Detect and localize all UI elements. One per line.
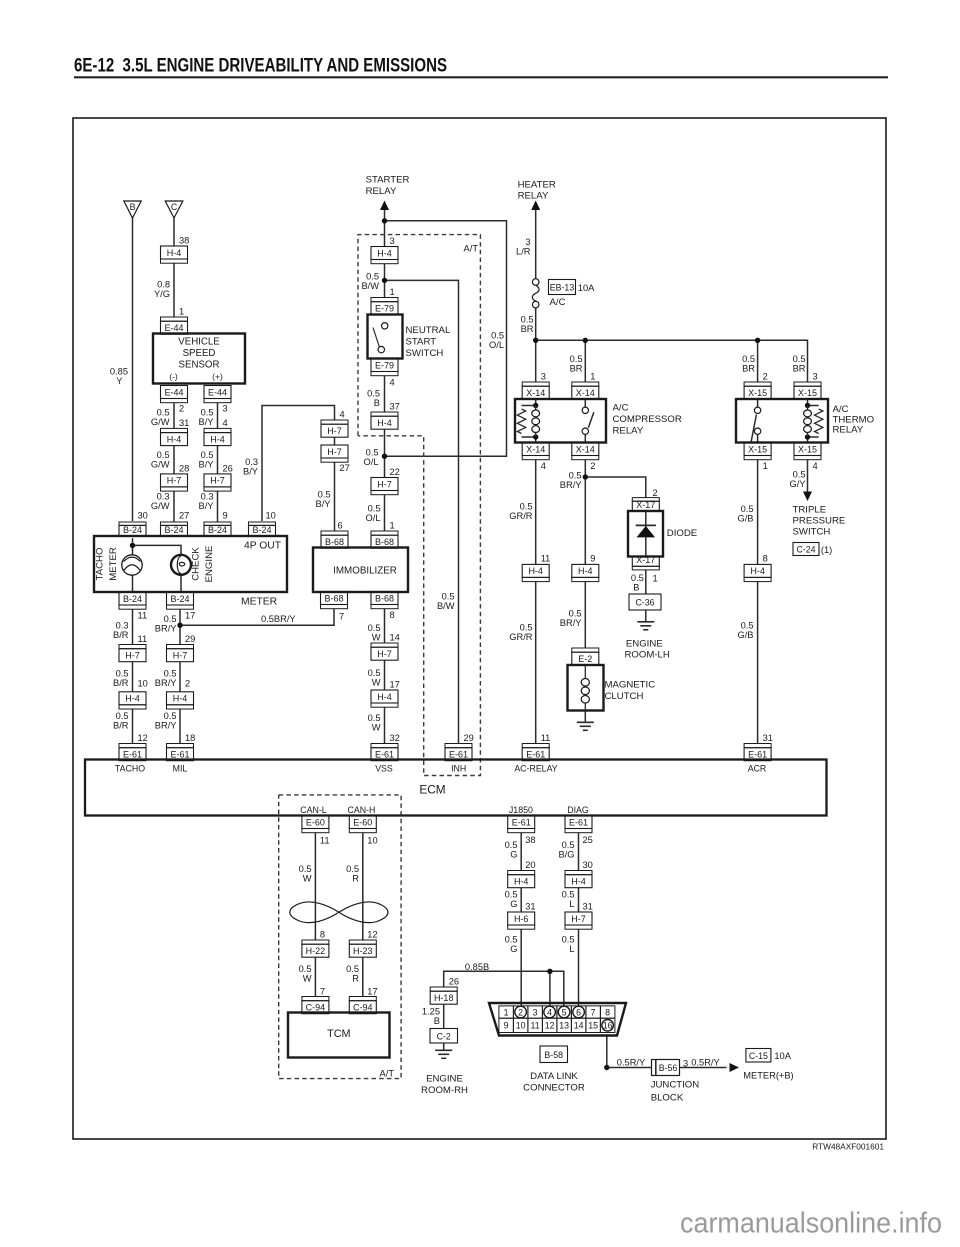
svg-text:0.5: 0.5	[368, 668, 381, 678]
svg-text:27: 27	[340, 463, 350, 473]
svg-text:3: 3	[223, 404, 228, 414]
svg-text:AC-RELAY: AC-RELAY	[514, 764, 557, 774]
svg-text:8: 8	[763, 554, 768, 564]
svg-text:ROOM-LH: ROOM-LH	[625, 650, 670, 661]
svg-text:H-18: H-18	[434, 993, 454, 1003]
svg-text:0.5: 0.5	[164, 614, 177, 624]
svg-text:DIODE: DIODE	[667, 528, 697, 539]
svg-text:B/G: B/G	[558, 850, 574, 860]
svg-text:0.5: 0.5	[569, 471, 582, 481]
svg-text:0.5: 0.5	[157, 408, 170, 418]
svg-text:0.5: 0.5	[346, 964, 359, 974]
svg-text:31: 31	[525, 902, 535, 912]
svg-text:0.5: 0.5	[367, 389, 380, 399]
svg-text:B/R: B/R	[113, 678, 129, 688]
svg-text:38: 38	[525, 835, 535, 845]
svg-text:X-17: X-17	[636, 500, 655, 510]
svg-text:METER(+B): METER(+B)	[743, 1071, 793, 1081]
svg-text:(+): (+)	[212, 372, 223, 382]
svg-text:17: 17	[185, 611, 195, 621]
svg-text:L/R: L/R	[516, 247, 531, 257]
svg-text:Y/G: Y/G	[154, 289, 170, 299]
svg-text:EB-13: EB-13	[550, 282, 575, 292]
svg-text:TCM: TCM	[327, 1028, 350, 1040]
svg-text:INH: INH	[451, 764, 466, 774]
svg-text:G/B: G/B	[737, 630, 753, 640]
svg-text:0.5: 0.5	[366, 272, 379, 282]
svg-text:VEHICLE: VEHICLE	[178, 337, 220, 348]
svg-text:GR/R: GR/R	[509, 511, 533, 521]
svg-text:ECM: ECM	[419, 783, 445, 797]
svg-text:PRESSURE: PRESSURE	[793, 516, 846, 527]
svg-text:B-56: B-56	[659, 1063, 678, 1073]
svg-text:1: 1	[590, 372, 595, 382]
svg-text:3: 3	[541, 372, 546, 382]
svg-text:0.5: 0.5	[520, 502, 533, 512]
svg-text:1: 1	[504, 1007, 509, 1017]
svg-text:H-4: H-4	[571, 877, 586, 887]
svg-text:G/W: G/W	[151, 460, 170, 470]
svg-text:1: 1	[763, 461, 768, 471]
svg-text:2: 2	[763, 372, 768, 382]
svg-text:BR/Y: BR/Y	[155, 678, 177, 688]
svg-text:E-61: E-61	[512, 817, 531, 827]
svg-text:RELAY: RELAY	[613, 426, 644, 437]
svg-text:E-61: E-61	[569, 817, 588, 827]
svg-text:B-68: B-68	[325, 537, 344, 547]
svg-text:10A: 10A	[578, 283, 595, 293]
svg-text:29: 29	[464, 733, 474, 743]
svg-text:14: 14	[390, 633, 400, 643]
svg-text:31: 31	[179, 418, 189, 428]
svg-text:0.5: 0.5	[346, 864, 359, 874]
svg-text:0.5: 0.5	[368, 713, 381, 723]
svg-text:(1): (1)	[821, 545, 832, 555]
svg-text:0.5: 0.5	[318, 490, 331, 500]
svg-text:26: 26	[223, 463, 233, 473]
svg-text:STARTER: STARTER	[366, 175, 410, 186]
svg-text:0.5: 0.5	[562, 890, 575, 900]
svg-text:X-17: X-17	[636, 555, 655, 565]
svg-text:37: 37	[390, 402, 400, 412]
svg-text:H-7: H-7	[167, 476, 182, 486]
svg-text:14: 14	[574, 1021, 584, 1031]
svg-text:0.5: 0.5	[521, 314, 534, 324]
svg-text:4: 4	[813, 461, 818, 471]
svg-text:H-4: H-4	[167, 248, 182, 258]
svg-text:C-94: C-94	[353, 1003, 373, 1013]
svg-text:H-4: H-4	[377, 418, 392, 428]
svg-text:IMMOBILIZER: IMMOBILIZER	[333, 566, 397, 577]
svg-text:3: 3	[683, 1059, 688, 1069]
svg-text:B/Y: B/Y	[316, 499, 331, 509]
svg-text:29: 29	[185, 634, 195, 644]
svg-text:0.8: 0.8	[157, 280, 170, 290]
svg-text:H-4: H-4	[173, 694, 188, 704]
svg-text:B/Y: B/Y	[199, 501, 214, 511]
svg-text:METER: METER	[108, 547, 119, 581]
svg-text:CHECK: CHECK	[191, 547, 202, 581]
svg-text:RELAY: RELAY	[833, 425, 864, 436]
svg-text:E-61: E-61	[526, 750, 545, 760]
svg-text:9: 9	[590, 554, 595, 564]
svg-text:B-58: B-58	[544, 1050, 563, 1060]
svg-text:9: 9	[504, 1021, 509, 1031]
svg-text:O/L: O/L	[366, 513, 381, 523]
svg-text:0.5: 0.5	[116, 711, 129, 721]
svg-text:6: 6	[338, 521, 343, 531]
svg-text:28: 28	[179, 463, 189, 473]
svg-text:H-4: H-4	[750, 566, 765, 576]
svg-text:G/Y: G/Y	[789, 479, 805, 489]
svg-text:W: W	[372, 723, 381, 733]
svg-text:0.5: 0.5	[520, 623, 533, 633]
svg-text:6: 6	[576, 1007, 581, 1017]
svg-text:B-24: B-24	[123, 525, 142, 535]
svg-text:E-79: E-79	[375, 360, 394, 370]
svg-text:TACHO: TACHO	[115, 764, 145, 774]
svg-text:G/W: G/W	[151, 501, 170, 511]
svg-text:4: 4	[340, 410, 345, 420]
svg-text:B: B	[633, 583, 639, 593]
svg-text:W: W	[303, 874, 312, 884]
svg-text:0.5: 0.5	[201, 450, 214, 460]
svg-text:G: G	[510, 850, 517, 860]
svg-text:2: 2	[590, 461, 595, 471]
svg-text:VSS: VSS	[375, 764, 393, 774]
svg-text:10: 10	[266, 511, 276, 521]
svg-text:26: 26	[449, 977, 459, 987]
svg-text:0.5: 0.5	[368, 504, 381, 514]
svg-text:10: 10	[516, 1021, 526, 1031]
svg-text:H-22: H-22	[306, 946, 326, 956]
svg-text:A/C: A/C	[550, 297, 566, 308]
svg-text:G/B: G/B	[737, 514, 753, 524]
svg-text:3: 3	[390, 236, 395, 246]
svg-text:7: 7	[591, 1007, 596, 1017]
svg-text:0.5: 0.5	[164, 711, 177, 721]
svg-text:(-): (-)	[169, 372, 178, 382]
svg-text:L: L	[569, 944, 574, 954]
svg-text:E-61: E-61	[449, 750, 468, 760]
svg-text:0.5: 0.5	[201, 408, 214, 418]
svg-text:H-7: H-7	[173, 651, 188, 661]
svg-text:0.5: 0.5	[299, 964, 312, 974]
svg-text:J1850: J1850	[509, 805, 533, 815]
svg-text:4: 4	[547, 1007, 552, 1017]
svg-text:BR/Y: BR/Y	[155, 624, 177, 634]
svg-text:0.85: 0.85	[110, 367, 128, 377]
svg-text:27: 27	[179, 511, 189, 521]
svg-text:B/R: B/R	[113, 721, 129, 731]
svg-text:1: 1	[653, 574, 658, 584]
svg-text:W: W	[372, 633, 381, 643]
svg-text:MAGNETIC: MAGNETIC	[605, 680, 656, 691]
svg-text:0.5: 0.5	[793, 470, 806, 480]
svg-text:ENGINE: ENGINE	[204, 546, 215, 583]
svg-text:CLUTCH: CLUTCH	[605, 691, 644, 702]
svg-text:0.5BR/Y: 0.5BR/Y	[261, 614, 296, 624]
svg-text:H-23: H-23	[353, 946, 373, 956]
svg-text:A/T: A/T	[464, 244, 479, 254]
svg-text:SWITCH: SWITCH	[406, 348, 444, 359]
svg-text:L: L	[569, 899, 574, 909]
svg-text:31: 31	[583, 902, 593, 912]
svg-text:E-79: E-79	[375, 304, 394, 314]
svg-text:15: 15	[588, 1021, 598, 1031]
svg-text:0.5R/Y: 0.5R/Y	[617, 1058, 645, 1068]
svg-text:E-44: E-44	[208, 387, 227, 397]
svg-text:E-61: E-61	[375, 750, 394, 760]
svg-text:ACR: ACR	[748, 764, 767, 774]
svg-text:4: 4	[223, 418, 228, 428]
svg-text:O/L: O/L	[489, 340, 504, 350]
svg-text:0.3: 0.3	[245, 457, 258, 467]
svg-text:H-4: H-4	[210, 434, 225, 444]
svg-text:MIL: MIL	[173, 764, 188, 774]
svg-text:CAN-H: CAN-H	[347, 805, 375, 815]
svg-text:0.5: 0.5	[164, 669, 177, 679]
svg-text:7: 7	[339, 612, 344, 622]
svg-text:12: 12	[367, 930, 377, 940]
svg-text:RELAY: RELAY	[518, 190, 549, 201]
svg-text:METER: METER	[241, 597, 277, 608]
svg-text:8: 8	[605, 1007, 610, 1017]
svg-text:O/L: O/L	[364, 457, 379, 467]
svg-text:H-7: H-7	[377, 649, 392, 659]
svg-text:BR/Y: BR/Y	[560, 480, 582, 490]
svg-text:TRIPLE: TRIPLE	[793, 505, 827, 516]
svg-text:START: START	[406, 337, 437, 348]
svg-text:HEATER: HEATER	[518, 179, 556, 190]
svg-text:B-68: B-68	[375, 537, 394, 547]
svg-text:TACHO: TACHO	[94, 548, 105, 581]
svg-text:B-24: B-24	[208, 525, 227, 535]
svg-text:B-24: B-24	[170, 594, 189, 604]
svg-text:10A: 10A	[774, 1051, 791, 1061]
svg-text:0.5: 0.5	[570, 354, 583, 364]
svg-text:GR/R: GR/R	[509, 632, 533, 642]
svg-text:X-15: X-15	[748, 388, 767, 398]
svg-text:BR: BR	[521, 324, 534, 334]
svg-text:0.3: 0.3	[116, 621, 129, 631]
svg-text:R: R	[352, 974, 359, 984]
svg-text:E-60: E-60	[306, 817, 325, 827]
svg-text:G: G	[510, 944, 517, 954]
svg-text:0.5: 0.5	[562, 840, 575, 850]
svg-text:H-4: H-4	[377, 692, 392, 702]
svg-text:0.5: 0.5	[368, 623, 381, 633]
svg-text:11: 11	[138, 611, 148, 621]
svg-text:20: 20	[525, 860, 535, 870]
svg-text:22: 22	[390, 467, 400, 477]
svg-text:11: 11	[138, 634, 148, 644]
svg-text:C-24: C-24	[796, 545, 815, 555]
svg-text:carmanualsonline.info: carmanualsonline.info	[680, 1208, 942, 1240]
svg-text:A/C: A/C	[613, 403, 629, 414]
svg-text:BR: BR	[570, 364, 583, 374]
svg-text:SWITCH: SWITCH	[793, 527, 831, 538]
svg-text:BR/Y: BR/Y	[155, 721, 177, 731]
svg-text:1.25: 1.25	[422, 1007, 440, 1017]
svg-text:B-24: B-24	[252, 525, 271, 535]
svg-text:0.3: 0.3	[157, 492, 170, 502]
svg-text:B-24: B-24	[123, 594, 142, 604]
svg-text:0.3: 0.3	[201, 492, 214, 502]
svg-text:8: 8	[390, 610, 395, 620]
svg-text:X-15: X-15	[798, 388, 817, 398]
svg-text:4: 4	[390, 378, 395, 388]
svg-text:COMPRESSOR: COMPRESSOR	[613, 414, 682, 425]
svg-text:2: 2	[185, 678, 190, 688]
svg-text:A/T: A/T	[380, 1069, 395, 1079]
svg-text:2: 2	[179, 404, 184, 414]
svg-text:4: 4	[541, 461, 546, 471]
svg-text:1: 1	[390, 287, 395, 297]
svg-text:G/W: G/W	[151, 417, 170, 427]
svg-text:H-4: H-4	[377, 248, 392, 258]
svg-text:38: 38	[179, 236, 189, 246]
svg-text:E-61: E-61	[170, 750, 189, 760]
svg-text:0.5: 0.5	[793, 354, 806, 364]
svg-text:BR: BR	[742, 364, 755, 374]
svg-text:17: 17	[367, 987, 377, 997]
svg-text:H-4: H-4	[578, 566, 593, 576]
svg-text:30: 30	[138, 511, 148, 521]
svg-text:X-14: X-14	[576, 388, 595, 398]
svg-text:H-7: H-7	[327, 426, 342, 436]
svg-text:E-44: E-44	[164, 387, 183, 397]
svg-text:X-14: X-14	[526, 444, 545, 454]
svg-text:32: 32	[390, 733, 400, 743]
svg-text:H-7: H-7	[327, 447, 342, 457]
svg-text:B: B	[130, 202, 136, 212]
svg-text:0.5: 0.5	[631, 573, 644, 583]
svg-text:B/W: B/W	[437, 601, 455, 611]
svg-text:1: 1	[179, 307, 184, 317]
svg-text:11: 11	[320, 836, 330, 846]
svg-text:G: G	[510, 899, 517, 909]
svg-text:E-44: E-44	[164, 323, 183, 333]
svg-text:0.5: 0.5	[366, 447, 379, 457]
svg-text:B/Y: B/Y	[199, 460, 214, 470]
svg-text:2: 2	[518, 1007, 523, 1017]
svg-text:2: 2	[653, 488, 658, 498]
svg-text:B/Y: B/Y	[243, 467, 258, 477]
svg-text:0.5: 0.5	[116, 669, 129, 679]
svg-text:12: 12	[545, 1021, 555, 1031]
svg-text:C-15: C-15	[749, 1051, 768, 1061]
svg-text:E-61: E-61	[748, 750, 767, 760]
svg-text:E-60: E-60	[353, 817, 372, 827]
svg-text:H-7: H-7	[125, 651, 140, 661]
svg-text:CAN-L: CAN-L	[300, 805, 327, 815]
svg-text:X-14: X-14	[526, 388, 545, 398]
svg-text:B: B	[434, 1016, 440, 1026]
svg-text:9: 9	[223, 511, 228, 521]
svg-text:6E-12 3.5L ENGINE DRIVEABILIT: 6E-12 3.5L ENGINE DRIVEABILITY AND EMISS…	[74, 55, 447, 77]
svg-text:DIAG: DIAG	[567, 805, 589, 815]
svg-text:11: 11	[531, 1021, 540, 1031]
svg-text:H-4: H-4	[125, 694, 140, 704]
svg-text:E-61: E-61	[123, 750, 142, 760]
svg-text:R: R	[352, 874, 359, 884]
svg-text:3: 3	[533, 1007, 538, 1017]
svg-text:H-6: H-6	[514, 914, 529, 924]
svg-text:0.5: 0.5	[505, 840, 518, 850]
svg-text:H-7: H-7	[377, 479, 392, 489]
svg-text:0.5: 0.5	[505, 890, 518, 900]
svg-text:5: 5	[562, 1007, 567, 1017]
svg-text:13: 13	[559, 1021, 569, 1031]
svg-text:JUNCTION: JUNCTION	[651, 1080, 700, 1091]
svg-text:SPEED: SPEED	[183, 348, 216, 359]
svg-text:X-15: X-15	[798, 444, 817, 454]
svg-text:E-2: E-2	[578, 654, 592, 664]
svg-text:ENGINE: ENGINE	[426, 1074, 463, 1085]
svg-text:RTW48AXF001601: RTW48AXF001601	[812, 1142, 884, 1152]
svg-text:BLOCK: BLOCK	[651, 1093, 684, 1104]
svg-text:H-4: H-4	[528, 566, 543, 576]
svg-text:10: 10	[138, 678, 148, 688]
svg-text:0.5: 0.5	[741, 504, 754, 514]
svg-text:X-14: X-14	[576, 444, 595, 454]
svg-text:CONNECTOR: CONNECTOR	[523, 1083, 585, 1094]
svg-text:B-68: B-68	[375, 593, 394, 603]
svg-text:B/Y: B/Y	[199, 417, 214, 427]
svg-text:0.5: 0.5	[741, 621, 754, 631]
svg-text:X-15: X-15	[748, 444, 767, 454]
svg-text:0.5: 0.5	[491, 331, 504, 341]
svg-text:B/W: B/W	[361, 281, 379, 291]
svg-text:30: 30	[583, 860, 593, 870]
svg-text:W: W	[303, 974, 312, 984]
svg-text:0.85B: 0.85B	[465, 962, 489, 972]
svg-text:W: W	[372, 678, 381, 688]
svg-text:0.5: 0.5	[569, 609, 582, 619]
svg-text:3: 3	[525, 237, 530, 247]
svg-text:H-7: H-7	[571, 914, 586, 924]
svg-text:DATA LINK: DATA LINK	[530, 1071, 578, 1082]
svg-text:NEUTRAL: NEUTRAL	[406, 325, 451, 336]
svg-text:C: C	[171, 202, 178, 212]
svg-text:B/R: B/R	[113, 630, 129, 640]
svg-text:C-94: C-94	[306, 1003, 326, 1013]
svg-text:12: 12	[138, 733, 148, 743]
svg-text:ROOM-RH: ROOM-RH	[421, 1085, 468, 1096]
svg-text:0.5: 0.5	[299, 864, 312, 874]
svg-text:0.5: 0.5	[442, 592, 455, 602]
svg-text:25: 25	[583, 835, 593, 845]
svg-text:H-4: H-4	[167, 434, 182, 444]
svg-text:SENSOR: SENSOR	[179, 360, 220, 371]
svg-text:17: 17	[390, 680, 400, 690]
svg-text:7: 7	[320, 987, 325, 997]
svg-text:B-68: B-68	[324, 593, 343, 603]
svg-text:11: 11	[541, 733, 551, 743]
svg-text:BR: BR	[793, 364, 806, 374]
svg-text:Y: Y	[116, 376, 122, 386]
svg-text:H-7: H-7	[210, 476, 225, 486]
svg-text:0.5: 0.5	[562, 935, 575, 945]
svg-text:1: 1	[390, 521, 395, 531]
svg-text:ENGINE: ENGINE	[626, 639, 663, 650]
svg-text:RELAY: RELAY	[366, 186, 397, 197]
svg-text:10: 10	[367, 836, 377, 846]
svg-text:0.5: 0.5	[157, 450, 170, 460]
svg-text:18: 18	[185, 733, 195, 743]
svg-text:C-2: C-2	[437, 1031, 451, 1041]
